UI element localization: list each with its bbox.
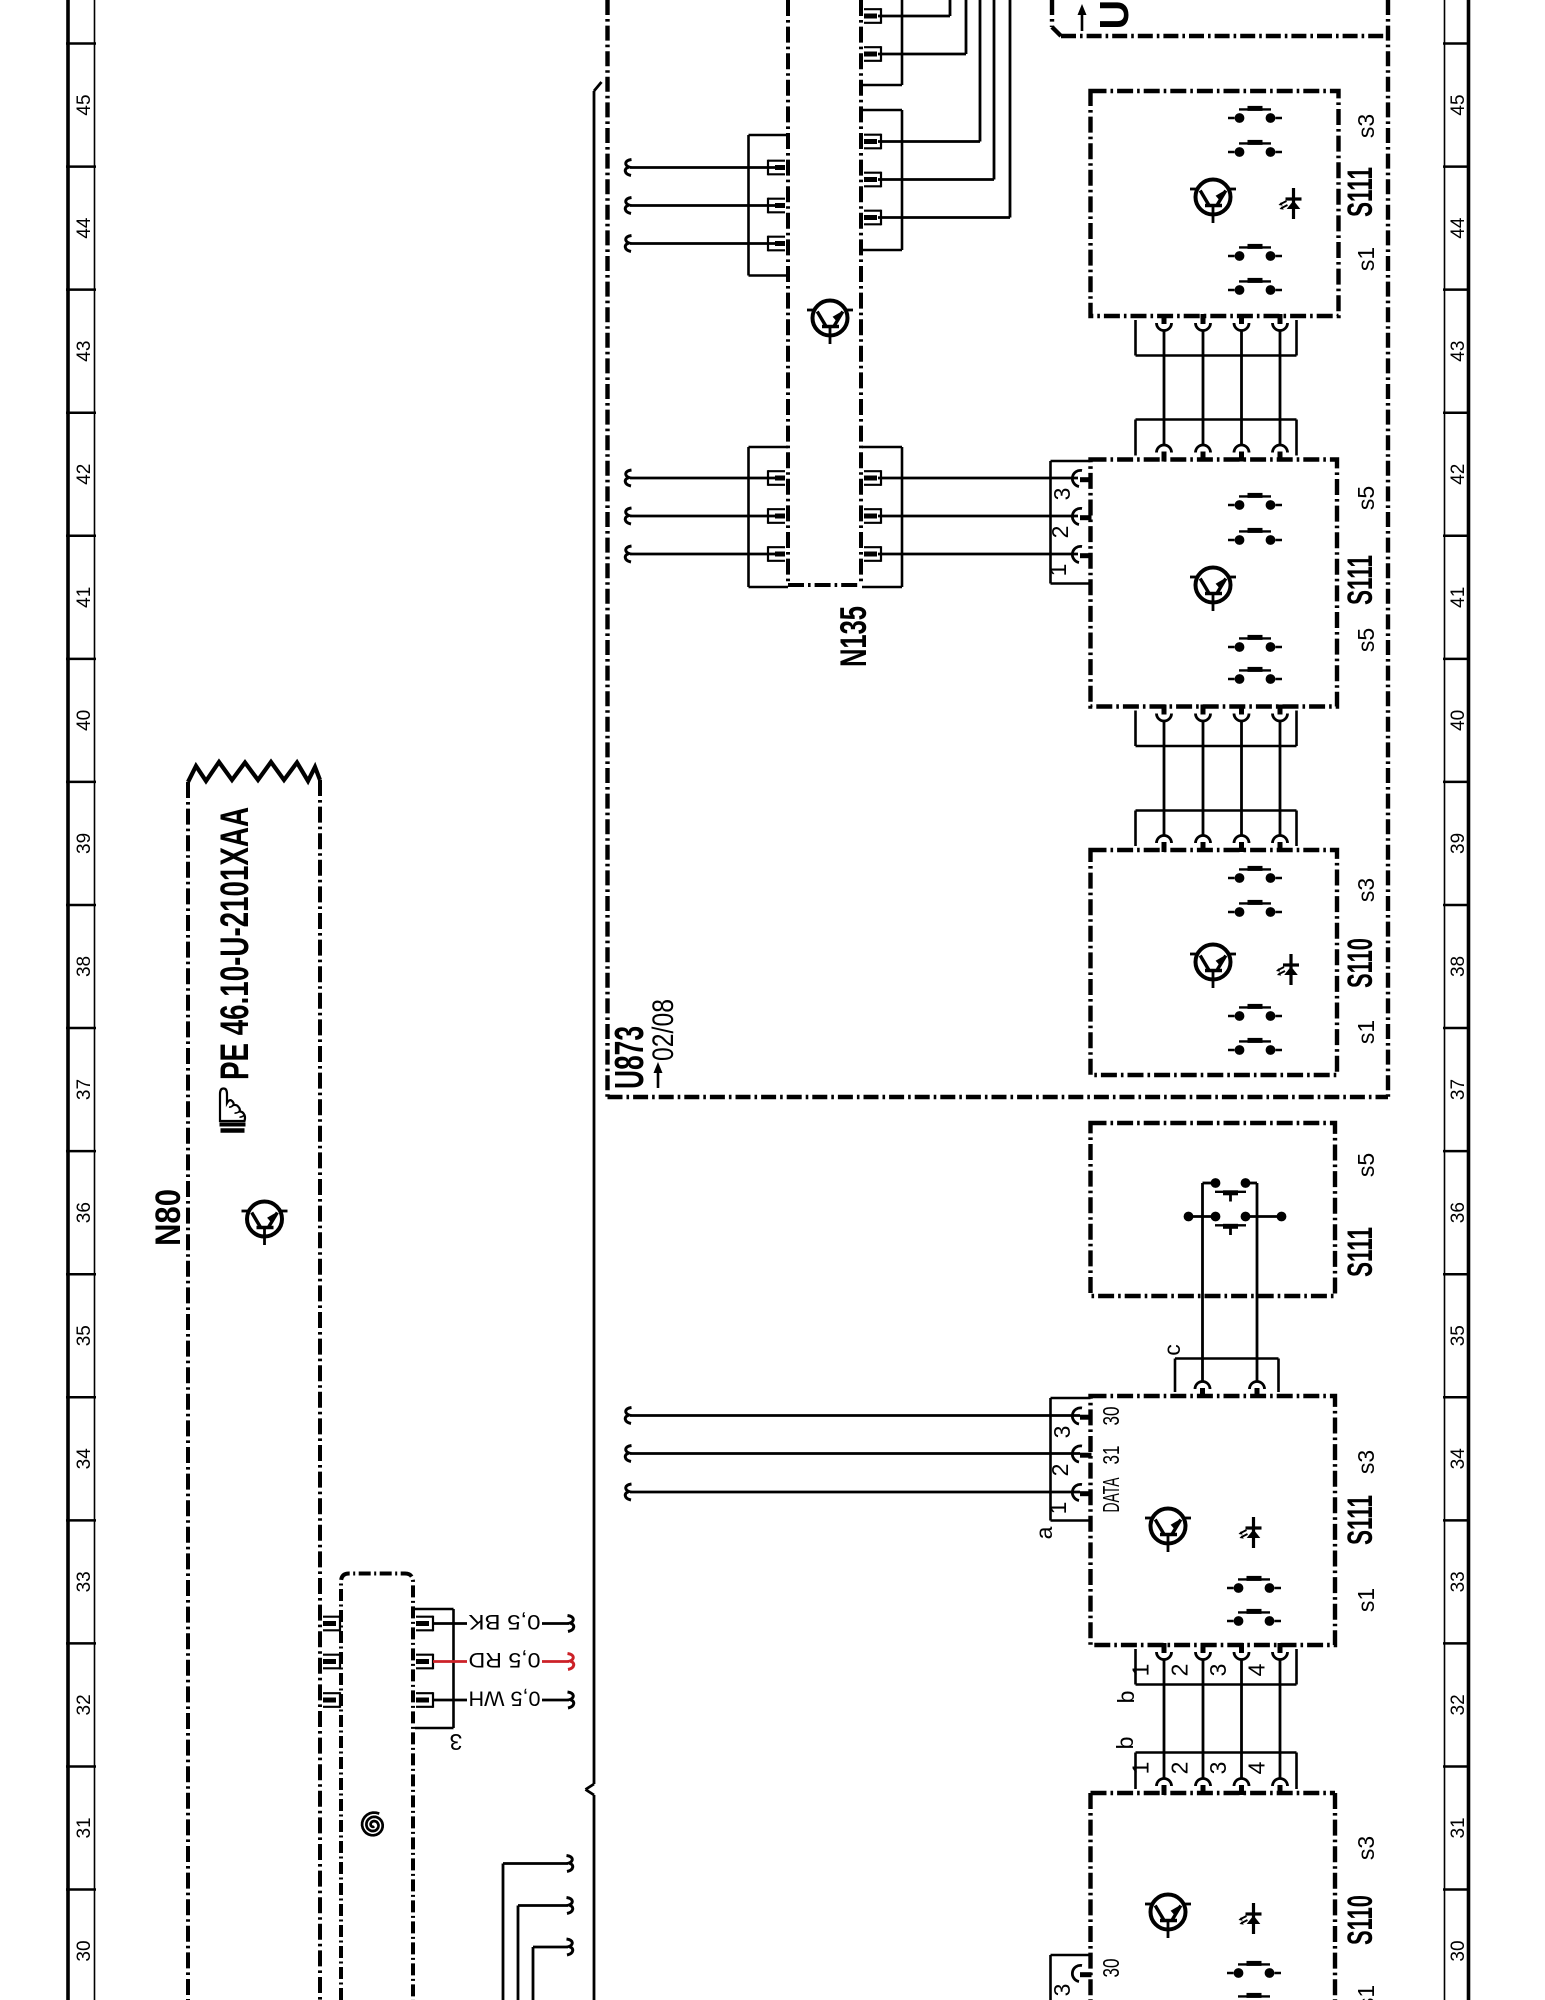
svg-text:3: 3 xyxy=(1049,488,1075,501)
N135 upper left connector bracket xyxy=(749,135,789,276)
switch s1 contact 1 in S110 #1 xyxy=(1228,1006,1282,1020)
wires 30 31 DATA to connector a xyxy=(625,1408,1080,1501)
wires N135 to S111 #2 connector xyxy=(878,478,1078,554)
svg-text:2: 2 xyxy=(1167,1664,1193,1677)
svg-text:s5: s5 xyxy=(1353,628,1379,652)
wire to lower-left (2) xyxy=(518,1898,573,2000)
svg-text:2: 2 xyxy=(1167,1762,1193,1775)
door switch unit box S110 (second, cut at bottom) xyxy=(1091,1793,1336,2000)
switch s5 contact 1 in small S111 xyxy=(1211,1178,1251,1201)
svg-text:34: 34 xyxy=(74,1448,95,1470)
pins 3 2 1 on S111 #3 left edge xyxy=(1072,1408,1091,1501)
pins 3 2 1 on S111 #2 left edge xyxy=(1072,470,1091,562)
svg-text:s1: s1 xyxy=(1353,1588,1379,1612)
svg-text:37: 37 xyxy=(1448,1079,1469,1100)
N135 lower right connector bracket xyxy=(862,447,902,587)
arrow up inside U10 xyxy=(1078,4,1087,31)
transistor in S111 #1 xyxy=(1190,180,1236,224)
svg-text:3: 3 xyxy=(450,1729,463,1755)
door switch unit box S111 (second) xyxy=(1091,460,1338,707)
switch s3 contact 2 in S110 #2 (cut) xyxy=(1238,1995,1270,1996)
door switch unit box S111 (first) xyxy=(1091,91,1339,316)
svg-text:s1: s1 xyxy=(1353,1985,1379,2000)
svg-text:U873: U873 xyxy=(606,1026,652,1089)
svg-text:31: 31 xyxy=(74,1817,95,1838)
switch s1 contact 1 in S111 #3 xyxy=(1227,1578,1281,1593)
switch s5 contact 2 in small S111 xyxy=(1184,1212,1287,1235)
break zigzag on N80 box top edge xyxy=(188,762,320,782)
svg-text:40: 40 xyxy=(1448,710,1469,731)
svg-text:s3: s3 xyxy=(1353,1836,1379,1860)
svg-text:43: 43 xyxy=(74,341,95,362)
svg-text:4: 4 xyxy=(1244,1663,1270,1676)
pin numbers 1 2 3 4 (lower b connector) xyxy=(1128,1761,1270,1774)
connector adapter box at N80 xyxy=(341,1574,413,2000)
svg-text:30: 30 xyxy=(1098,1407,1124,1426)
svg-text:41: 41 xyxy=(74,587,95,608)
svg-text:s3: s3 xyxy=(1353,1450,1379,1474)
transistor in S110 #2 xyxy=(1145,1895,1191,1939)
svg-text:39: 39 xyxy=(1448,833,1469,854)
svg-text:30: 30 xyxy=(1448,1940,1469,1961)
pointing hand symbol xyxy=(220,1089,246,1131)
switch s3 contact 1 in S110 #2 xyxy=(1227,1963,1281,1978)
svg-text:31: 31 xyxy=(1098,1446,1124,1465)
LED in S110 #1 xyxy=(1276,954,1299,985)
pins on adapter box right edge xyxy=(416,1616,433,1708)
svg-text:0,5 WH: 0,5 WH xyxy=(469,1687,541,1710)
svg-text:44: 44 xyxy=(74,217,95,239)
svg-text:S111: S111 xyxy=(1341,1495,1380,1545)
switch s3 contact 2 in S111 #1 xyxy=(1228,142,1282,157)
wires from N135 right pins rising to top edge xyxy=(878,0,1010,218)
svg-text:02/08: 02/08 xyxy=(647,999,680,1061)
svg-text:b: b xyxy=(1113,1691,1139,1704)
svg-text:S111: S111 xyxy=(1341,167,1380,217)
N135 lower left connector bracket xyxy=(749,447,789,587)
connector comb between S111 #2 and S110 #1 xyxy=(1136,705,1297,853)
svg-text:30: 30 xyxy=(1098,1959,1124,1978)
svg-text:31: 31 xyxy=(1448,1817,1469,1838)
pins on N135 right edge (upper connectors) xyxy=(864,8,881,225)
svg-text:S110: S110 xyxy=(1341,1895,1380,1945)
door switch unit box S110 (first) xyxy=(1091,850,1338,1075)
svg-text:s5: s5 xyxy=(1353,486,1379,510)
control unit box N80 (steering column module) xyxy=(188,780,320,2000)
transistor in S111 #3 xyxy=(1145,1509,1191,1553)
LED in S111 #3 xyxy=(1239,1517,1262,1548)
svg-text:2: 2 xyxy=(1047,526,1073,539)
switch s5 contact 4 in S111 #2 xyxy=(1228,669,1282,683)
transistor in U873 xyxy=(807,301,853,345)
transistor in S110 #1 xyxy=(1190,945,1236,989)
pins on N135 left edge (lower connector) xyxy=(768,470,785,562)
svg-text:39: 39 xyxy=(74,833,95,854)
svg-text:3: 3 xyxy=(1205,1762,1231,1775)
wire 0,5 RD xyxy=(433,1654,574,1670)
switch s1 contact 2 in S110 #1 xyxy=(1228,1040,1282,1055)
svg-text:42: 42 xyxy=(1448,464,1469,485)
switch s3 contact 2 in S110 #1 xyxy=(1228,902,1282,916)
coiled wire (clockspring) symbol xyxy=(362,1813,383,1836)
svg-text:2: 2 xyxy=(1047,1464,1073,1477)
svg-text:44: 44 xyxy=(1448,217,1469,239)
shield wire along U873 left edge xyxy=(586,82,602,2000)
svg-text:U10: U10 xyxy=(1091,0,1137,30)
S111 #2 left connector bracket xyxy=(1051,461,1091,584)
control unit box U873 (overhead control panel) xyxy=(608,0,1389,1097)
switch s3 contact 1 in S111 #1 xyxy=(1228,108,1282,123)
door switch unit box S111 (third) xyxy=(1091,1396,1336,1645)
svg-text:37: 37 xyxy=(74,1079,95,1100)
svg-text:S111: S111 xyxy=(1341,1227,1380,1277)
switch s1 contact 1 in S111 #1 xyxy=(1228,246,1282,261)
left ruler frame xyxy=(66,0,96,2000)
svg-text:43: 43 xyxy=(1448,341,1469,362)
svg-text:S111: S111 xyxy=(1341,555,1380,605)
S110 #2 left connector bracket (cut) xyxy=(1051,1955,1091,2000)
svg-text:38: 38 xyxy=(74,956,95,977)
wire to lower-left (1) xyxy=(503,1856,573,2000)
svg-text:45: 45 xyxy=(74,94,95,115)
control unit box U10 (partial, top) xyxy=(1052,0,1388,36)
page reference arrow to 02/08 xyxy=(654,1062,663,1088)
svg-text:s1: s1 xyxy=(1353,247,1379,271)
svg-text:40: 40 xyxy=(74,710,95,731)
switch s5 contact 3 in S111 #2 xyxy=(1228,637,1282,651)
svg-text:33: 33 xyxy=(74,1571,95,1592)
svg-text:1: 1 xyxy=(1045,564,1071,577)
pins on N80 right edge xyxy=(323,1616,340,1708)
svg-text:s3: s3 xyxy=(1353,114,1379,138)
LED in S111 #1 xyxy=(1279,188,1302,219)
svg-text:1: 1 xyxy=(1045,1502,1071,1515)
switch s3 contact 1 in S110 #1 xyxy=(1228,868,1282,882)
wire pair from switches through small S111 box xyxy=(1203,1183,1258,1382)
wires to N135 upper left connector xyxy=(625,160,775,252)
switch s5 contact 2 in S111 #2 xyxy=(1228,530,1282,544)
transistor in S111 #2 xyxy=(1190,568,1236,612)
N135 upper right connector brackets xyxy=(862,0,902,250)
switch s1 contact 2 in S111 #1 xyxy=(1228,280,1282,295)
svg-text:N80: N80 xyxy=(149,1189,188,1246)
svg-text:3: 3 xyxy=(1049,1426,1075,1439)
svg-text:s3: s3 xyxy=(1353,878,1379,902)
svg-text:32: 32 xyxy=(74,1694,95,1715)
svg-text:S110: S110 xyxy=(1341,938,1380,988)
connector comb b-b between S111 #3 and S110 #2 xyxy=(1136,1643,1297,1795)
svg-text:35: 35 xyxy=(1448,1325,1469,1346)
svg-text:s1: s1 xyxy=(1353,1020,1379,1044)
pin 3 on S110 #2 left edge xyxy=(1080,1972,1092,1977)
switch unit box S111 (small) xyxy=(1091,1123,1336,1296)
connector comb between S111 #1 and S111 #2 xyxy=(1136,314,1297,462)
svg-text:N135: N135 xyxy=(833,606,874,667)
svg-text:32: 32 xyxy=(1448,1694,1469,1715)
svg-text:0,5 RD: 0,5 RD xyxy=(469,1648,541,1671)
switch s1 contact 2 in S111 #3 xyxy=(1227,1611,1281,1626)
svg-text:42: 42 xyxy=(74,464,95,485)
svg-text:0,5 BK: 0,5 BK xyxy=(469,1610,541,1633)
pin numbers 1 2 3 4 (upper b connector) xyxy=(1128,1663,1270,1676)
wires to N135 lower left connector xyxy=(625,470,775,562)
wire 0,5 WH xyxy=(433,1692,574,1708)
wire 0,5 BK xyxy=(433,1616,574,1632)
svg-text:38: 38 xyxy=(1448,956,1469,977)
wire to lower-left (3) xyxy=(533,1939,573,2000)
svg-text:s5: s5 xyxy=(1353,1153,1379,1177)
svg-text:1: 1 xyxy=(1128,1762,1154,1775)
right ruler numbers 45..30 xyxy=(1448,94,1469,1961)
svg-text:a: a xyxy=(1031,1526,1057,1539)
svg-text:36: 36 xyxy=(74,1202,95,1223)
svg-text:34: 34 xyxy=(1448,1448,1469,1470)
svg-text:33: 33 xyxy=(1448,1571,1469,1592)
svg-text:4: 4 xyxy=(1244,1761,1270,1774)
right ruler frame xyxy=(1443,0,1470,2000)
svg-text:3: 3 xyxy=(1205,1664,1231,1677)
LED in S110 #2 xyxy=(1239,1903,1262,1934)
switch s5 contact 1 in S111 #2 xyxy=(1228,495,1282,510)
svg-text:36: 36 xyxy=(1448,1202,1469,1223)
svg-text:3: 3 xyxy=(1049,1984,1075,1997)
svg-text:c: c xyxy=(1159,1344,1185,1356)
svg-text:PE 46.10-U-2101XAA: PE 46.10-U-2101XAA xyxy=(213,807,257,1080)
S111 #3 connector a bracket xyxy=(1051,1398,1091,1521)
svg-text:b: b xyxy=(1112,1737,1138,1750)
pins on N135 right edge (lower connector) xyxy=(864,470,881,562)
transistor in N80 xyxy=(242,1202,288,1246)
connector c bracket xyxy=(1175,1359,1279,1399)
svg-text:41: 41 xyxy=(1448,587,1469,608)
svg-text:35: 35 xyxy=(74,1325,95,1346)
svg-text:1: 1 xyxy=(1128,1664,1154,1677)
svg-text:DATA: DATA xyxy=(1098,1477,1124,1512)
pins on N135 left edge (upper connector) xyxy=(768,160,785,252)
left ruler numbers 45..30 xyxy=(74,94,95,1961)
svg-text:30: 30 xyxy=(74,1940,95,1961)
wire connector bracket at adapter box xyxy=(415,1609,454,1728)
svg-text:45: 45 xyxy=(1448,94,1469,115)
electronics box N135 (garage door opener control) xyxy=(788,0,861,585)
